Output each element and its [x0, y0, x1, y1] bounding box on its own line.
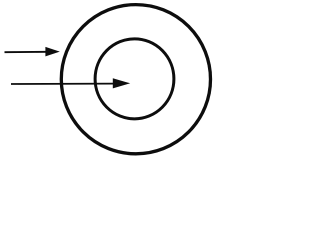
lower arrowhead [113, 78, 130, 88]
inner circle [95, 39, 174, 119]
outer circle [61, 5, 210, 154]
wire: lower arrow shaft [11, 83, 115, 85]
upper arrowhead [45, 47, 59, 57]
wire: upper arrow shaft [5, 51, 48, 53]
